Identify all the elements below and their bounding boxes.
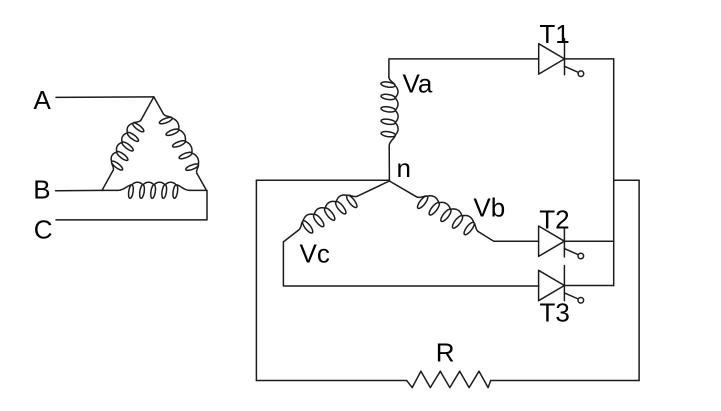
wire bottom right lead bbox=[491, 380, 639, 382]
wire Vc down to T3 anode bbox=[283, 230, 538, 286]
wire B lead bbox=[56, 189, 103, 191]
thyristor T1 bbox=[539, 44, 565, 74]
svg-text:T1: T1 bbox=[539, 19, 569, 49]
delta winding A-B (left side coil) bbox=[102, 170, 113, 190]
wire T3 cathode to bus bbox=[564, 285, 613, 287]
svg-text:C: C bbox=[34, 214, 53, 244]
wire bottom left lead bbox=[256, 380, 406, 382]
svg-text:R: R bbox=[436, 338, 455, 368]
cathode bus bbox=[613, 59, 615, 286]
winding Vc bbox=[298, 195, 358, 233]
wire Va to node n bbox=[388, 146, 390, 181]
delta winding A-C (right side coil) bbox=[154, 97, 164, 114]
right outer rail bbox=[638, 180, 640, 380]
wire T1 cathode to bus bbox=[565, 58, 614, 60]
svg-text:Vb: Vb bbox=[473, 193, 505, 223]
svg-text:T3: T3 bbox=[540, 298, 570, 328]
wire top (Va to T1 anode) bbox=[389, 59, 539, 77]
winding Vb bbox=[417, 196, 479, 235]
thyristor T3 bbox=[539, 270, 565, 300]
wire T2 cathode to bus bbox=[564, 240, 613, 242]
wire Vb to T2 anode bbox=[479, 232, 539, 241]
wire node n to Vc bbox=[358, 181, 390, 196]
delta winding B-C (bottom coil) bbox=[102, 189, 118, 191]
wire C lead bbox=[56, 190, 207, 220]
wire A lead bbox=[56, 96, 154, 99]
thyristor T2 bbox=[539, 226, 565, 256]
svg-text:n: n bbox=[397, 153, 411, 183]
resistor R bbox=[407, 371, 491, 387]
svg-text:Va: Va bbox=[403, 69, 433, 99]
wire node n to Vb bbox=[389, 181, 416, 197]
wire node n to left rail bbox=[256, 179, 389, 181]
svg-text:B: B bbox=[33, 174, 50, 204]
left rail down bbox=[255, 180, 257, 380]
winding Va bbox=[381, 77, 398, 146]
wire bus jog to outer rail bbox=[614, 179, 639, 181]
svg-text:A: A bbox=[34, 85, 52, 115]
svg-text:Vc: Vc bbox=[300, 239, 330, 269]
svg-text:T2: T2 bbox=[539, 204, 569, 234]
